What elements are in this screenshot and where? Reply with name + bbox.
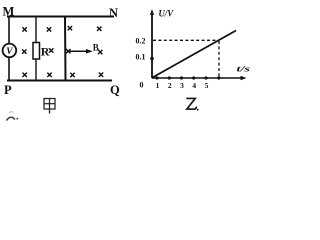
field cross row3 col2	[47, 73, 51, 77]
wire middle branch	[35, 16, 37, 43]
svg-text:0: 0	[140, 81, 144, 90]
faint partial glyph bottom-left	[7, 117, 16, 120]
svg-text:3: 3	[180, 81, 184, 90]
svg-text:0.1: 0.1	[136, 53, 146, 62]
field cross row3 col3	[70, 73, 74, 77]
x-axis t/s	[152, 77, 243, 79]
svg-text:V: V	[6, 47, 13, 57]
svg-text:0.2: 0.2	[136, 37, 146, 46]
svg-text:t/s: t/s	[237, 65, 251, 74]
svg-text:R: R	[41, 45, 50, 59]
caption yi (figure B)	[186, 98, 196, 109]
voltmeter V	[3, 44, 17, 58]
field cross row2 col3	[66, 49, 70, 53]
svg-text:U/V: U/V	[159, 10, 174, 20]
svg-text:4: 4	[192, 81, 196, 90]
velocity arrow	[67, 50, 88, 52]
field cross row1 col2	[47, 27, 51, 31]
field cross row3 col4	[99, 73, 103, 77]
svg-text:Q: Q	[110, 83, 120, 97]
caption jia (figure A)	[44, 99, 55, 114]
wire bottom rail P-Q	[7, 80, 112, 82]
dashed horizontal at 0.2	[153, 39, 219, 41]
y-axis U/V	[151, 12, 153, 78]
field cross row1 col1	[22, 27, 26, 31]
field cross row3 col1	[23, 73, 27, 77]
svg-text:5: 5	[205, 81, 209, 90]
svg-text:B: B	[93, 43, 99, 53]
svg-text:N: N	[109, 6, 118, 20]
x-axis tick dots	[155, 76, 158, 79]
resistor R	[33, 43, 40, 60]
field cross below B	[98, 50, 102, 54]
wire left branch	[8, 16, 10, 44]
svg-text:2: 2	[168, 81, 172, 90]
field cross next to R	[49, 48, 53, 52]
field cross row2 col1	[22, 49, 26, 53]
rod (sliding conductor)	[64, 16, 67, 81]
svg-text:P: P	[4, 83, 12, 97]
svg-text:1: 1	[156, 81, 160, 90]
graph line U(t)	[153, 31, 237, 78]
y-axis dot at 0.1	[150, 57, 154, 61]
field cross row1 col3	[68, 26, 72, 30]
wire top rail M-N	[7, 16, 114, 18]
svg-text:M: M	[3, 5, 15, 19]
field cross row1 col4	[97, 27, 101, 31]
dashed vertical at t=5	[218, 41, 220, 77]
